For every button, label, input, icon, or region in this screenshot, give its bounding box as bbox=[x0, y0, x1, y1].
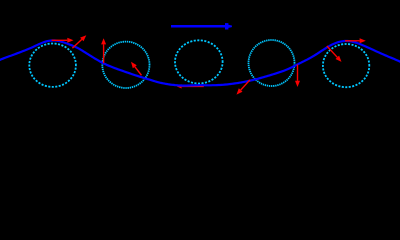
particle orbit circle 3 (above trough) bbox=[175, 40, 223, 83]
blue wave-propagation direction arrow (top center, pointing right) bbox=[171, 23, 232, 29]
particle orbit circle 2 bbox=[102, 42, 149, 88]
red velocity arrow pointing down-left (left of circle 4) bbox=[237, 80, 251, 95]
particle orbit circle 4 bbox=[249, 40, 295, 86]
red velocity arrow pointing down-right (left slope of crest 5) bbox=[327, 46, 342, 62]
red velocity arrow pointing up-right (front slope of crest 1) bbox=[72, 35, 86, 48]
red velocity arrow at crest 5, pointing right bbox=[345, 38, 366, 43]
particle orbit circle 5 (under crest 5) bbox=[323, 44, 369, 87]
red velocity arrow at crest 1, pointing right bbox=[52, 38, 74, 43]
red velocity arrow pointing down (right side of circle 4) bbox=[295, 65, 300, 88]
red velocity arrow pointing up (left side of circle 2) bbox=[101, 38, 106, 63]
red velocity arrow pointing up-left (inside circle 2) bbox=[131, 62, 142, 76]
red velocity arrow at trough, pointing left (under curve) bbox=[177, 84, 204, 88]
particle orbit circle 1 (under crest 1) bbox=[29, 43, 76, 86]
blue water-surface wave (trochoid curve) bbox=[0, 41, 400, 86]
